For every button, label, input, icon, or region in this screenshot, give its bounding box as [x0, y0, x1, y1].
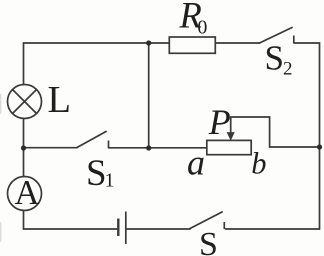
- switch S1 contact tick: [108, 141, 110, 149]
- ammeter A circle: [8, 177, 42, 211]
- wire ammeter to bottom-left corner: [23, 211, 25, 230]
- lamp L (circle with X): [8, 85, 42, 119]
- wire S1 contact to rheostat: [109, 147, 207, 149]
- wire battery to switch S: [127, 228, 190, 230]
- wire left junction to ammeter: [23, 148, 25, 177]
- node: S1 middle junction dot: [146, 145, 151, 150]
- node: left junction dot: [21, 145, 26, 150]
- wire resistor to S2: [215, 42, 259, 44]
- wire wiper to right wire: [231, 117, 320, 147]
- edge artifact left lower: [0, 222, 1, 242]
- battery: short plate: [117, 219, 119, 237]
- edge artifact left upper: [0, 94, 1, 114]
- wire switch S to bottom-right corner: [226, 228, 320, 230]
- svg-text:L: L: [48, 79, 72, 121]
- wiper arrow: [227, 117, 234, 140]
- wire S1 row: left junction to blade pivot: [24, 147, 78, 149]
- switch S2 contact tick: [293, 36, 295, 44]
- svg-text:1: 1: [105, 170, 115, 192]
- switch S contact tick: [223, 222, 225, 229]
- svg-text:2: 2: [283, 59, 293, 80]
- rheostat P box: [207, 140, 251, 154]
- switch S1 blade: [77, 132, 106, 148]
- svg-text:P: P: [208, 102, 231, 142]
- battery: long plate: [125, 212, 127, 245]
- node: top junction dot: [146, 40, 151, 45]
- wire lamp to left junction: [23, 119, 25, 149]
- wire left vertical (top corner to lamp): [23, 43, 25, 85]
- node: right junction dot: [317, 144, 322, 149]
- wire middle vertical (top junction to S1 junction): [148, 43, 150, 148]
- resistor R0: [169, 37, 215, 53]
- wire top-left horizontal: [24, 42, 170, 44]
- svg-text:A: A: [15, 174, 40, 212]
- svg-text:a: a: [187, 142, 205, 182]
- svg-text:S: S: [86, 153, 107, 194]
- switch S2 blade: [260, 28, 293, 44]
- wire bottom to battery: [24, 228, 118, 230]
- svg-text:S: S: [199, 226, 218, 256]
- svg-text:S: S: [265, 39, 284, 78]
- wire S2 to top-right corner and right vertical: [294, 43, 320, 229]
- svg-text:0: 0: [197, 17, 207, 39]
- svg-text:b: b: [251, 147, 266, 181]
- switch S blade: [190, 212, 222, 229]
